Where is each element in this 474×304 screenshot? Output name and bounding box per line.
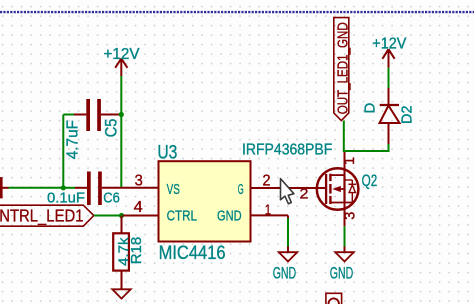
channel bar segments <box>329 174 331 181</box>
svg-text:4: 4 <box>134 199 143 216</box>
svg-text:VS: VS <box>167 181 180 198</box>
C5 left pin <box>74 114 86 116</box>
svg-text:Q2: Q2 <box>362 172 378 190</box>
svg-text:+12V: +12V <box>372 35 407 52</box>
wire: +12V to D2 cathode <box>388 68 390 88</box>
wire: down to GND <box>287 218 289 247</box>
svg-text:MIC4416: MIC4416 <box>159 243 226 264</box>
wire: label to junction <box>94 215 123 217</box>
source pin <box>344 203 346 227</box>
R18 top lead <box>121 216 123 234</box>
wire: D2 anode to drain wire <box>388 144 390 152</box>
wire/pin: C6 to U3 VS (pin 3) <box>102 187 159 189</box>
drain pin <box>344 151 346 175</box>
wire: OUT label down to drain node <box>343 121 345 151</box>
C5 right pin <box>101 114 121 116</box>
anode pin <box>388 123 390 144</box>
junction at C5 right <box>119 112 124 117</box>
ground under R18 <box>112 286 130 299</box>
power +12V (right) <box>382 49 394 67</box>
svg-text:C5: C5 <box>102 119 120 138</box>
pin: CTRL (pin 4) <box>123 215 159 217</box>
bottom tap <box>330 202 352 204</box>
mid tap with substrate arrow <box>340 188 345 190</box>
capacitor C6 <box>75 172 102 206</box>
global label CNTRL_LED1 <box>0 205 94 226</box>
power +12V (left) <box>115 59 127 77</box>
svg-text:CTRL: CTRL <box>167 208 197 225</box>
capacitor (off-screen) pin <box>2 187 9 189</box>
pin/wire: G (pin 2) to Q2 gate <box>251 187 327 189</box>
svg-text:2: 2 <box>300 185 309 202</box>
junction at R18 top <box>119 213 124 218</box>
IC U3 MIC4416 body <box>159 161 251 241</box>
capacitor C5 <box>74 99 121 131</box>
svg-text:D: D <box>361 103 378 114</box>
wire: C6 left pin wire <box>63 187 75 189</box>
svg-text:3: 3 <box>135 173 143 190</box>
ground under Q2 <box>335 247 353 262</box>
Q2 body circle <box>317 168 359 210</box>
R18 body <box>113 233 129 270</box>
junction at C5/C6 left column <box>61 185 66 190</box>
R18 bottom lead <box>121 271 123 286</box>
C5 left plate <box>86 99 90 131</box>
resistor R18 <box>113 216 129 286</box>
svg-text:IRFP4368PBF: IRFP4368PBF <box>242 142 332 159</box>
diode D2 <box>380 88 400 144</box>
svg-text:0.1uF: 0.1uF <box>47 189 85 206</box>
sheet border (blue dashed) <box>0 11 474 13</box>
wire: left cap to junction <box>9 187 64 189</box>
C5 right plate <box>97 99 101 131</box>
top tap <box>330 174 344 176</box>
svg-text:CNTRL_LED1: CNTRL_LED1 <box>0 205 84 226</box>
svg-text:GND: GND <box>273 263 297 282</box>
wire: Q2 source to GND <box>344 226 346 246</box>
body diode <box>345 179 353 181</box>
wire: vertical C5-left to C6-left <box>62 115 64 188</box>
partial global label (bottom, next channel) <box>326 293 342 304</box>
wire: horizontal drain node to diode <box>343 150 389 152</box>
wire: corner to C5 pin <box>63 114 74 116</box>
cathode bar <box>380 104 399 106</box>
gate bar <box>325 174 327 204</box>
cathode pin <box>388 88 390 105</box>
svg-text:3: 3 <box>343 212 359 220</box>
svg-text:C6: C6 <box>103 189 120 206</box>
C6 left plate <box>87 172 91 206</box>
svg-text:G: G <box>238 181 244 198</box>
transistor Q2 <box>317 151 359 226</box>
svg-text:OUT_LED1_GND: OUT_LED1_GND <box>336 22 352 114</box>
svg-text:D2: D2 <box>400 106 416 125</box>
svg-text:1: 1 <box>342 157 358 165</box>
pin: GND (pin 1) out and corner <box>251 214 289 216</box>
svg-text:R18: R18 <box>128 237 145 265</box>
global label OUT_LED1_GND (vertical) <box>334 18 352 121</box>
svg-text:U3: U3 <box>157 142 177 163</box>
mouse cursor <box>281 179 294 204</box>
C6 right plate <box>98 172 102 206</box>
internal D-S link <box>343 175 345 202</box>
wire: +12V down through C5 junction to VS line <box>120 76 122 188</box>
anode triangle <box>380 106 400 124</box>
svg-text:GND: GND <box>217 208 242 225</box>
svg-text:4.7uF: 4.7uF <box>65 120 82 160</box>
ground under U3 pin1 <box>279 247 297 262</box>
svg-text:GND: GND <box>330 263 353 282</box>
C6 left pin <box>75 187 87 189</box>
capacitor (off-screen, left edge) plate <box>0 177 3 198</box>
svg-text:+12V: +12V <box>104 46 140 63</box>
